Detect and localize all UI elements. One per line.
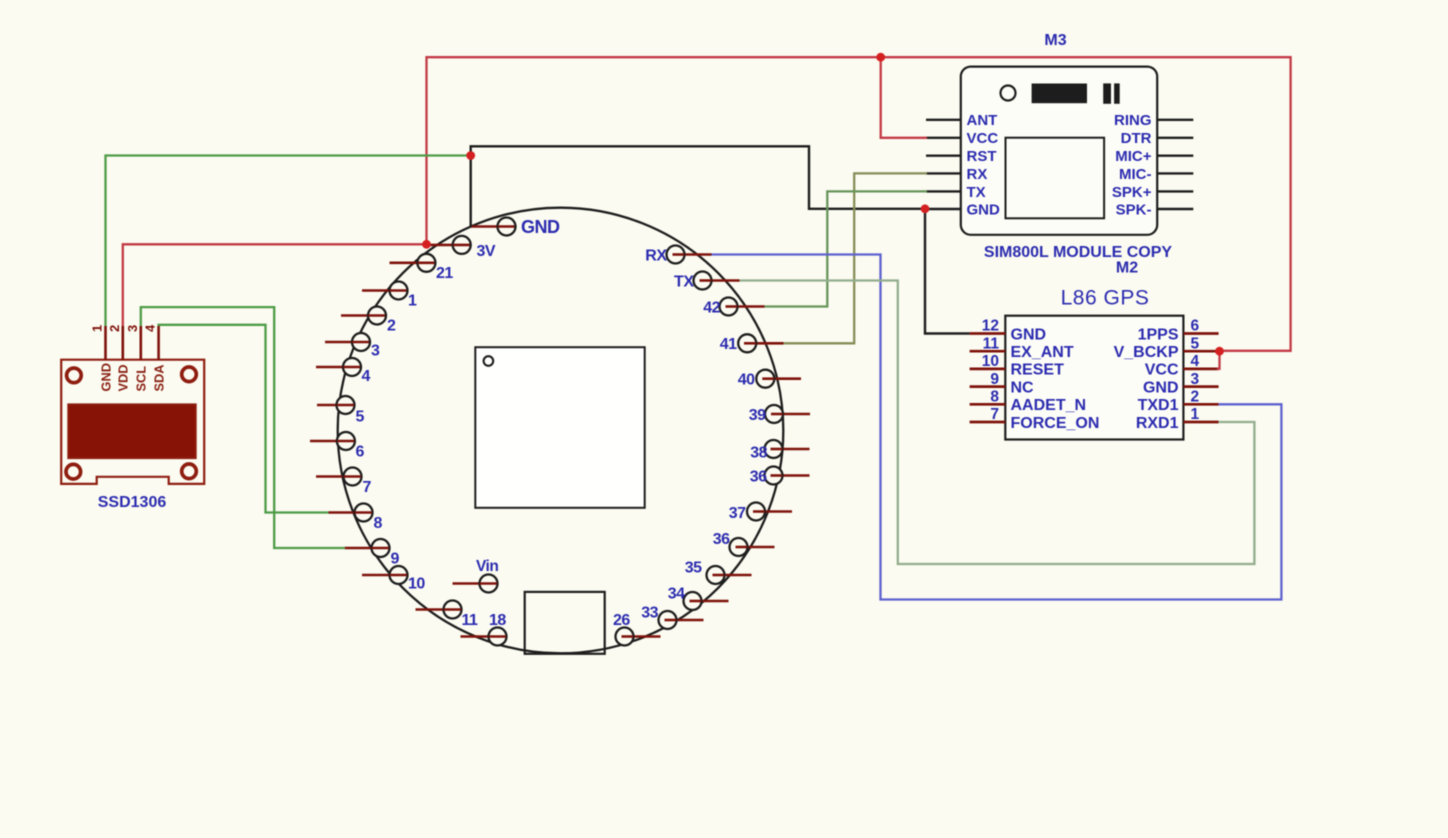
round board USB connector <box>525 592 605 654</box>
board pin 6 <box>310 432 365 461</box>
board pin 26 <box>613 612 661 646</box>
svg-text:GND: GND <box>98 363 113 391</box>
svg-text:3: 3 <box>1191 371 1200 388</box>
junction red at 3V <box>422 240 431 249</box>
svg-text:L86 GPS: L86 GPS <box>1061 287 1150 310</box>
svg-text:1: 1 <box>90 325 105 332</box>
junction green-black GND <box>466 151 475 160</box>
svg-text:DTR: DTR <box>1121 130 1152 147</box>
svg-text:37: 37 <box>729 505 746 522</box>
board pin 3V <box>427 236 496 260</box>
SIM800L pin RING stub <box>1157 119 1193 121</box>
SSD1306 mounting hole 3 <box>66 464 81 479</box>
SSD1306 mounting hole 4 <box>182 464 197 479</box>
board pin 41 <box>720 334 784 353</box>
SSD1306 pin 4 stub <box>157 326 160 360</box>
round board outline <box>338 208 784 654</box>
wire green SDA to board pin 8 <box>159 325 329 513</box>
svg-text:41: 41 <box>720 336 737 353</box>
svg-text:4: 4 <box>1191 353 1200 370</box>
board pin Vin <box>453 558 499 593</box>
svg-text:1: 1 <box>1191 406 1200 423</box>
svg-text:MIC+: MIC+ <box>1115 148 1151 165</box>
svg-text:GND: GND <box>521 217 560 237</box>
svg-text:RING: RING <box>1114 112 1152 129</box>
SSD1306 pin 2 stub <box>122 326 125 360</box>
wire blue board RX to L86 TXD1 <box>712 255 1282 600</box>
svg-text:SCL: SCL <box>134 366 149 392</box>
svg-text:21: 21 <box>436 265 453 282</box>
svg-text:GND: GND <box>1011 326 1047 343</box>
SIM800L pin RST stub <box>926 154 961 156</box>
board pin 38 <box>750 440 809 462</box>
L86 pin 9 stub <box>970 385 1006 388</box>
SIM800L pin GND stub <box>926 208 961 210</box>
svg-text:39: 39 <box>749 407 766 424</box>
wire green SSD1306 GND to GND junction <box>106 156 471 327</box>
svg-text:RESET: RESET <box>1011 362 1065 379</box>
board pin 1 <box>362 282 417 310</box>
SIM800L pin ANT stub <box>926 119 961 121</box>
board pin 36 <box>713 531 775 556</box>
L86 pin 12 stub <box>970 332 1006 335</box>
board pin 10 <box>362 566 425 593</box>
svg-text:SDA: SDA <box>151 364 166 391</box>
board pin 39 <box>749 405 810 424</box>
svg-text:6: 6 <box>1191 318 1200 335</box>
board pin 2 <box>341 307 396 335</box>
svg-text:M2: M2 <box>1116 260 1138 277</box>
svg-text:VDD: VDD <box>116 364 131 391</box>
svg-text:7: 7 <box>990 406 999 423</box>
L86 pin 10 stub <box>970 368 1006 371</box>
svg-text:GND: GND <box>1143 379 1179 396</box>
SIM800L bar 2 <box>1114 83 1120 103</box>
svg-text:26: 26 <box>613 612 630 629</box>
svg-text:FORCE_ON: FORCE_ON <box>1011 415 1100 432</box>
svg-text:EX_ANT: EX_ANT <box>1011 344 1074 361</box>
svg-text:10: 10 <box>408 576 425 593</box>
board pin 21 <box>390 254 454 282</box>
svg-text:18: 18 <box>489 612 506 629</box>
svg-text:2: 2 <box>1191 389 1200 406</box>
junction red at top run <box>876 53 885 62</box>
SSD1306 mounting hole 1 <box>67 368 82 383</box>
junction red at V_BCKP <box>1215 347 1224 356</box>
board pin 9 <box>345 539 400 568</box>
SSD1306 pin 1 stub <box>104 326 107 360</box>
wire red branch to SIM800L VCC <box>881 57 927 138</box>
wire olive SIM800L RX to board pin 41 <box>784 173 928 343</box>
board pin 33 <box>641 605 703 630</box>
L86 pin 4 stub <box>1183 368 1218 371</box>
svg-text:40: 40 <box>738 372 755 389</box>
svg-text:9: 9 <box>990 371 999 388</box>
svg-text:AADET_N: AADET_N <box>1011 397 1087 414</box>
svg-text:TX: TX <box>674 274 694 291</box>
board pin 3 <box>325 333 380 360</box>
svg-text:V_BCKP: V_BCKP <box>1114 344 1179 361</box>
OLED module SSD1306 outline <box>61 360 204 484</box>
L86 pin 6 stub <box>1183 332 1218 335</box>
junction GND at SIM800L <box>921 204 930 213</box>
svg-text:TX: TX <box>967 184 986 201</box>
board pin 8 <box>328 504 382 533</box>
svg-text:M3: M3 <box>1044 32 1066 49</box>
svg-text:34: 34 <box>668 586 685 603</box>
svg-text:NC: NC <box>1011 379 1035 396</box>
board pin 4 <box>316 358 371 385</box>
svg-text:6: 6 <box>356 444 365 461</box>
SIM800L antenna hole <box>1001 86 1016 101</box>
svg-text:1PPS: 1PPS <box>1138 326 1179 343</box>
wire red VDD net (SSD1306 VDD to 3V junction) <box>123 244 427 326</box>
wire black GND net (board GND up and right) <box>471 146 927 227</box>
SIM800L pin MIC+ stub <box>1157 154 1193 156</box>
round board MCU chip <box>475 347 644 508</box>
svg-text:3V: 3V <box>477 243 496 260</box>
SSD1306 mounting hole 2 <box>182 367 197 382</box>
board pin TX <box>674 272 739 291</box>
L86 pin 2 stub <box>1183 403 1218 406</box>
board pin RX <box>645 246 711 265</box>
SIM800L pin SPK+ stub <box>1157 190 1193 192</box>
SSD1306 pin 3 stub <box>140 326 143 360</box>
L86 pin 5 stub <box>1183 350 1218 353</box>
board pin 5 <box>317 396 365 426</box>
svg-text:MIC-: MIC- <box>1119 166 1152 183</box>
svg-text:SPK+: SPK+ <box>1112 184 1152 201</box>
L86 pin 1 stub <box>1183 421 1218 424</box>
SIM800L pin VCC stub <box>926 137 961 139</box>
svg-text:2: 2 <box>387 318 396 335</box>
svg-text:36: 36 <box>713 531 730 548</box>
svg-text:36: 36 <box>750 469 767 486</box>
wire green SIM800L TX to board pin 42 <box>765 191 928 306</box>
L86 pin 11 stub <box>970 350 1006 353</box>
board pin 36 <box>750 467 810 486</box>
SIM800L chip block <box>1032 84 1087 104</box>
svg-text:SIM800L MODULE COPY: SIM800L MODULE COPY <box>984 244 1173 261</box>
SIM800L module body <box>961 67 1157 235</box>
svg-text:TXD1: TXD1 <box>1138 397 1179 414</box>
svg-text:3: 3 <box>371 343 380 360</box>
SIM800L pin DTR stub <box>1157 137 1193 139</box>
svg-text:VCC: VCC <box>1145 362 1179 379</box>
svg-text:7: 7 <box>363 479 372 496</box>
board pin 34 <box>668 586 729 611</box>
svg-text:Vin: Vin <box>476 558 498 575</box>
L86 pin 7 stub <box>970 421 1006 424</box>
board pin 35 <box>685 560 752 585</box>
board pin 7 <box>316 468 372 497</box>
svg-text:35: 35 <box>685 560 702 577</box>
board pin 11 <box>416 601 479 630</box>
svg-text:8: 8 <box>990 389 999 406</box>
wire pale-green board TX to L86 RXD1 <box>740 281 1255 565</box>
svg-text:42: 42 <box>703 300 720 317</box>
svg-text:33: 33 <box>641 605 658 622</box>
board pin 37 <box>729 503 792 523</box>
L86 pin 8 stub <box>970 403 1006 406</box>
wire black GND net to L86 pin 12 <box>925 209 970 334</box>
svg-text:8: 8 <box>374 515 383 532</box>
svg-text:2: 2 <box>107 325 122 332</box>
SIM800L pin SPK- stub <box>1157 208 1193 210</box>
svg-text:5: 5 <box>1191 335 1200 352</box>
svg-text:RX: RX <box>967 166 988 183</box>
SSD1306 display area <box>68 404 195 458</box>
SIM800L bar 1 <box>1103 83 1111 103</box>
L86 pin 3 stub <box>1183 385 1218 388</box>
svg-text:38: 38 <box>750 445 767 462</box>
SIM800L pin MIC- stub <box>1157 172 1193 174</box>
svg-text:SPK-: SPK- <box>1116 201 1152 218</box>
svg-text:11: 11 <box>462 612 479 629</box>
svg-text:3: 3 <box>125 325 140 332</box>
svg-text:5: 5 <box>356 409 365 426</box>
svg-text:12: 12 <box>982 318 999 335</box>
svg-text:RXD1: RXD1 <box>1136 415 1179 432</box>
svg-text:GND: GND <box>967 201 1001 218</box>
svg-text:11: 11 <box>983 335 1000 352</box>
board pin 42 <box>703 298 764 317</box>
svg-text:ANT: ANT <box>967 112 998 129</box>
SIM800L inner frame <box>1006 138 1105 219</box>
svg-text:4: 4 <box>143 324 158 332</box>
svg-text:RST: RST <box>967 148 997 165</box>
L86 GPS body <box>1005 316 1183 440</box>
svg-text:10: 10 <box>982 353 999 370</box>
svg-text:RX: RX <box>645 248 667 265</box>
svg-text:1: 1 <box>408 293 417 310</box>
wire green SCL to board pin 9 <box>141 307 345 548</box>
SIM800L pin RX stub <box>926 172 961 174</box>
round board chip pin-1 dot <box>484 356 494 366</box>
wire red VDD net riser and top run <box>427 57 1291 369</box>
SIM800L pin TX stub <box>926 190 961 192</box>
svg-text:VCC: VCC <box>967 130 999 147</box>
board pin 18 <box>461 612 507 646</box>
svg-text:SSD1306: SSD1306 <box>98 494 167 511</box>
board pin 40 <box>738 370 801 389</box>
svg-text:4: 4 <box>362 368 371 385</box>
board pin GND <box>471 217 560 237</box>
